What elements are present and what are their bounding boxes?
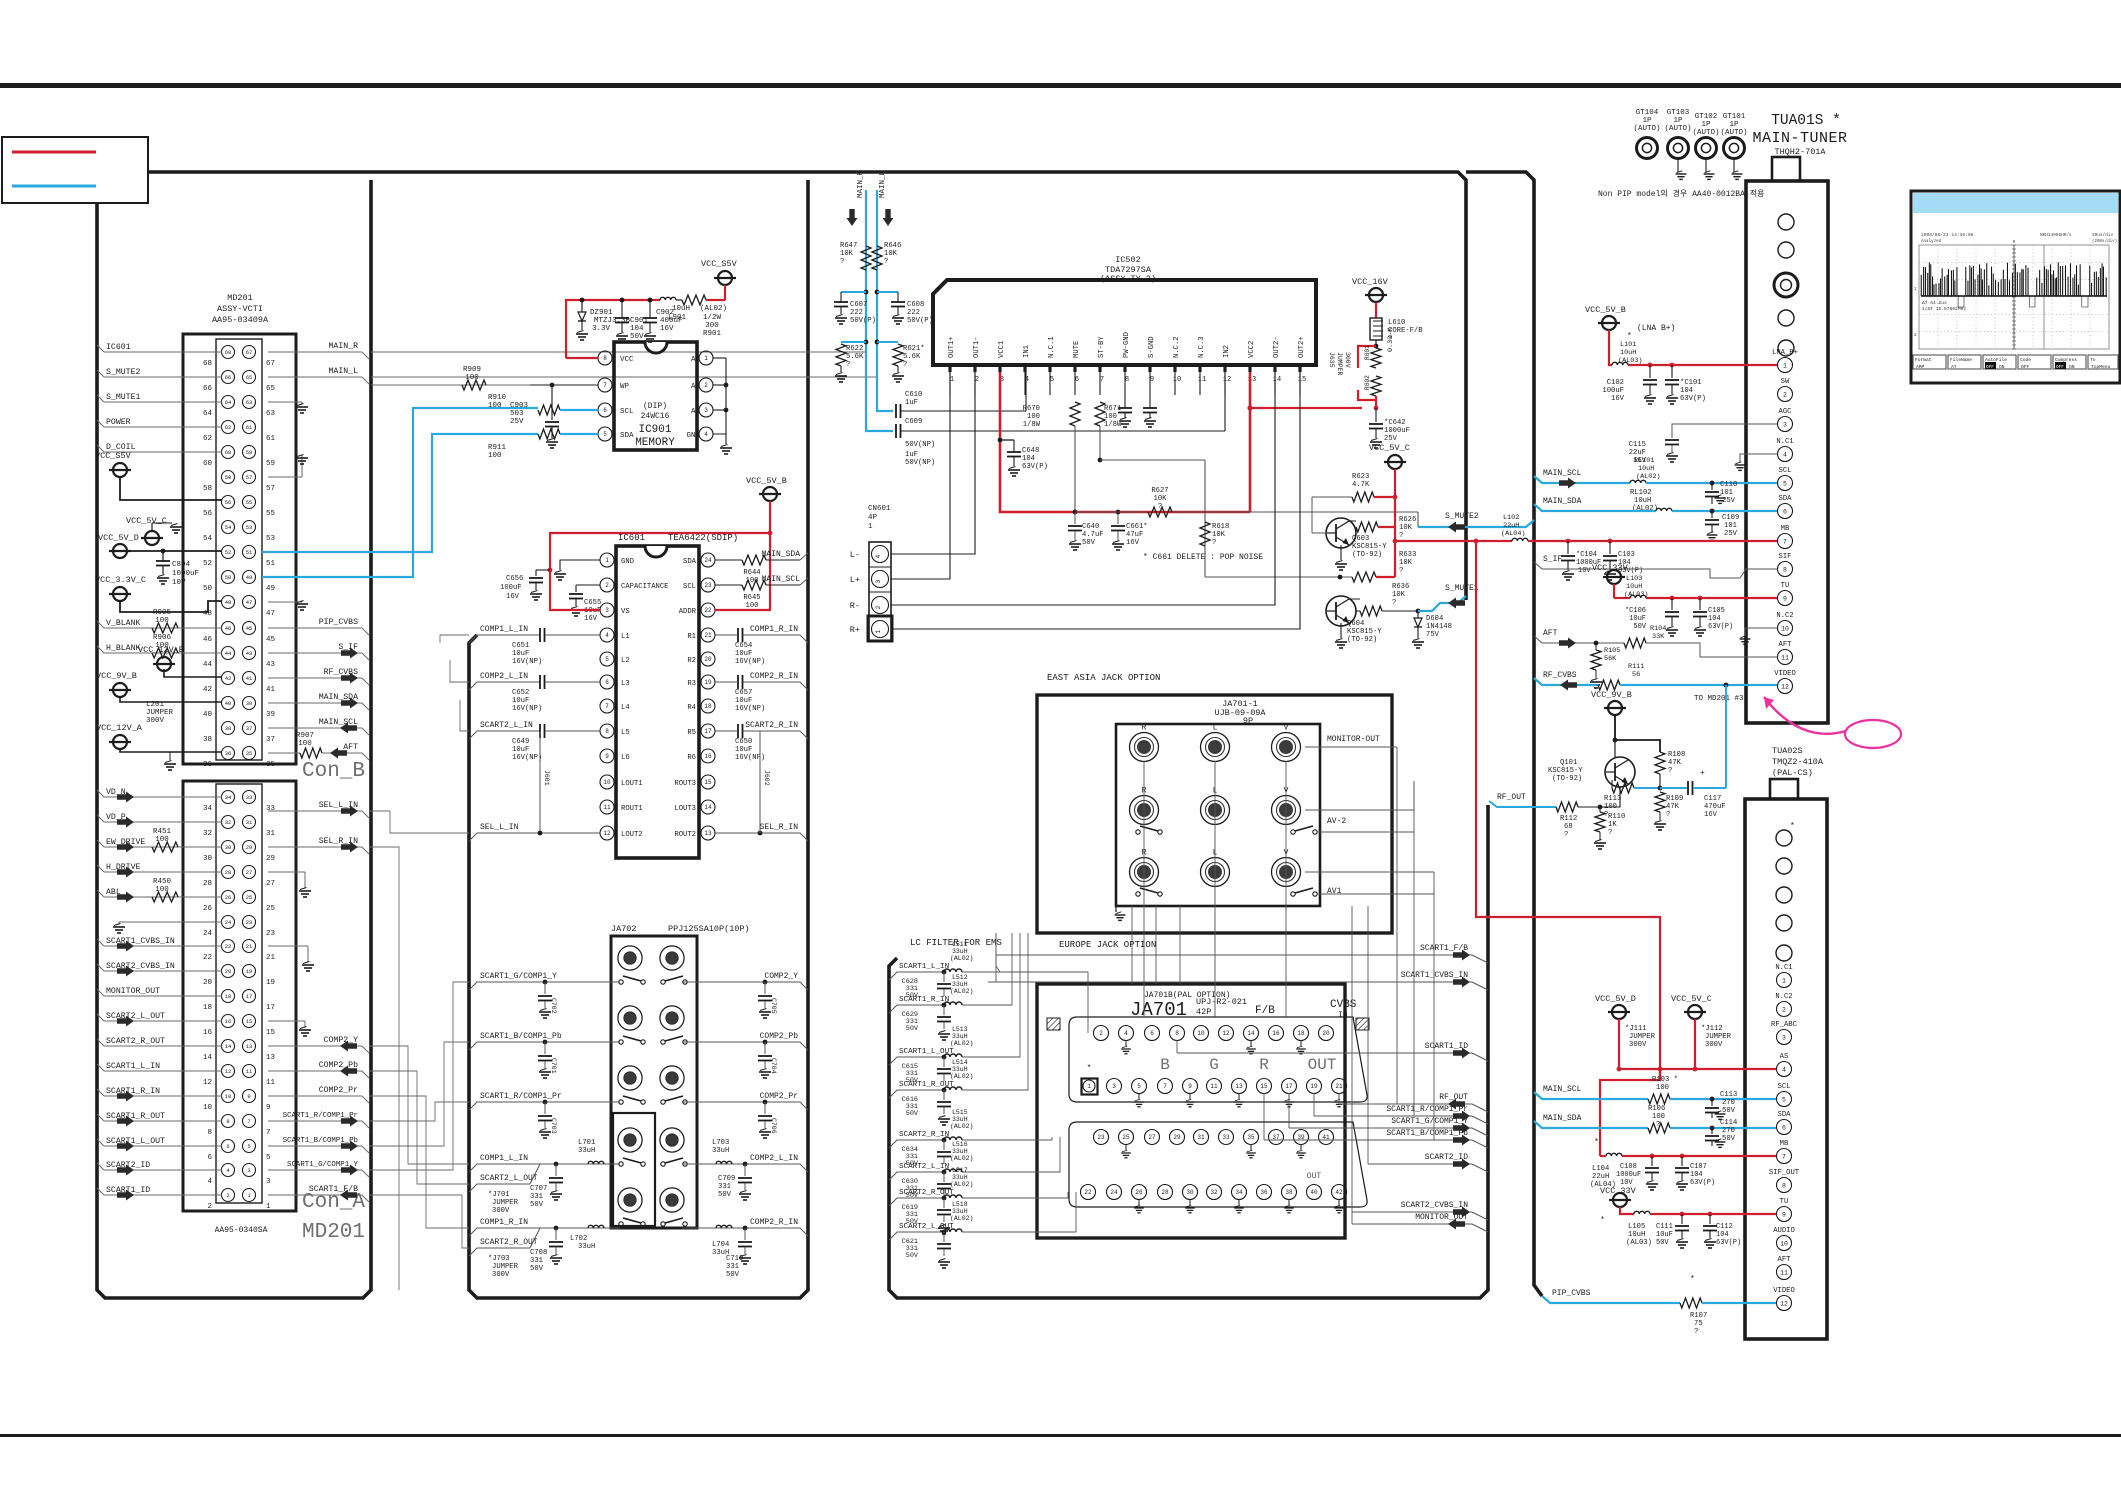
resistor R108 47K — [1655, 752, 1665, 774]
power VCC_5V_D — [1612, 1005, 1626, 1019]
region box3 outline — [889, 805, 1488, 1298]
svg-text:(AL02): (AL02) — [950, 1215, 973, 1222]
IC601 pin 10 LOUT1 — [600, 775, 614, 789]
svg-text:33: 33 — [1222, 1134, 1230, 1141]
resistor R622 5.6K — [864, 340, 869, 345]
svg-text:56K: 56K — [1604, 655, 1617, 663]
svg-text:49: 49 — [246, 574, 253, 581]
svg-text:21: 21 — [704, 632, 712, 639]
power VCC_5V_B — [1602, 316, 1616, 330]
capacitor C615 331 50V — [943, 1057, 945, 1067]
svg-text:25V: 25V — [510, 418, 524, 426]
svg-text:46: 46 — [203, 636, 213, 644]
svg-text:60: 60 — [203, 460, 213, 468]
MD201 pin 27 — [243, 866, 256, 879]
svg-text:2: 2 — [1099, 1030, 1103, 1037]
legend box — [2, 137, 148, 203]
IC502 pin 12 IN2 — [1223, 365, 1226, 372]
wire SCART2_CVBS_IN — [104, 970, 222, 972]
svg-text:1/2W: 1/2W — [703, 314, 722, 322]
JA701 pin 8 — [1170, 1026, 1185, 1041]
svg-text:R5: R5 — [687, 729, 696, 737]
svg-text:VCC_9V_B: VCC_9V_B — [1591, 690, 1632, 700]
svg-text:IC901: IC901 — [638, 424, 671, 436]
svg-text:GT101: GT101 — [1723, 113, 1746, 121]
svg-text:AFT: AFT — [1543, 629, 1558, 638]
svg-text:63: 63 — [266, 410, 276, 418]
svg-text:10: 10 — [603, 779, 611, 786]
svg-text:A2: A2 — [691, 408, 700, 416]
resistor R602 0.33-K — [1371, 376, 1381, 396]
resistor R633 10K — [1352, 572, 1376, 582]
svg-text:14: 14 — [704, 804, 712, 811]
svg-text:R906: R906 — [153, 634, 172, 642]
svg-text:TopMenu: TopMenu — [2091, 364, 2111, 370]
svg-text:43: 43 — [246, 650, 253, 657]
capacitor C655 10uF 16V — [576, 584, 600, 586]
svg-text:12: 12 — [203, 1079, 212, 1087]
svg-text:20: 20 — [225, 968, 232, 975]
svg-text:47K: 47K — [1666, 803, 1680, 811]
svg-text:MAIN_SCL: MAIN_SCL — [1543, 1085, 1582, 1094]
svg-text:22uH: 22uH — [1592, 1173, 1609, 1181]
svg-text:L5: L5 — [621, 729, 630, 737]
wire SCART1_L_OUT — [889, 1057, 944, 1065]
MD201 pin 29 — [243, 841, 256, 854]
svg-text:GT104: GT104 — [1636, 109, 1659, 117]
JA701 pin 21 — [1332, 1079, 1347, 1094]
svg-text:4.7K: 4.7K — [1352, 481, 1370, 489]
top border line of board regions — [148, 172, 1466, 600]
svg-text:54: 54 — [203, 535, 213, 543]
legend cyan wire sample — [12, 185, 96, 188]
svg-text:300V: 300V — [492, 1271, 510, 1279]
svg-text:6: 6 — [603, 407, 607, 414]
inductor L514 33uH — [944, 1087, 962, 1090]
wire SEL_R_IN — [268, 846, 362, 848]
svg-text:(AUTO): (AUTO) — [1633, 125, 1660, 133]
gray mute net — [1075, 511, 1148, 513]
svg-text:35: 35 — [266, 761, 276, 769]
IC502 pin 2 OUT1- — [973, 365, 976, 372]
svg-text:(AL02): (AL02) — [950, 1073, 973, 1080]
svg-text:CAPACITANCE: CAPACITANCE — [621, 583, 668, 591]
svg-text:SCL: SCL — [1779, 467, 1792, 475]
svg-text:25V: 25V — [1722, 497, 1736, 505]
svg-text:POWER: POWER — [106, 418, 131, 427]
svg-text:VCC_12V_A: VCC_12V_A — [96, 723, 143, 733]
svg-text:30: 30 — [225, 844, 232, 851]
svg-text:15: 15 — [704, 779, 712, 786]
capacitor C704 330 50V — [764, 1042, 766, 1054]
svg-text:4: 4 — [875, 554, 882, 558]
wire COMP2_Pr — [268, 1095, 362, 1097]
capacitor C901 104 50V — [620, 298, 625, 303]
svg-text:(AL02): (AL02) — [950, 955, 973, 962]
svg-text:SEL_L_IN: SEL_L_IN — [480, 823, 519, 832]
wire AV-2 out — [1317, 831, 1414, 833]
magenta ellipse — [1845, 720, 1901, 748]
svg-text:(AL02): (AL02) — [1636, 473, 1660, 481]
IC601 pin 11 ROUT1 — [600, 800, 614, 814]
svg-text:50V(P): 50V(P) — [850, 317, 876, 325]
JA701 upper pin row box — [1069, 1017, 1367, 1102]
capacitor C651 — [539, 628, 541, 642]
svg-text:32: 32 — [1210, 1189, 1218, 1196]
svg-text:C102: C102 — [1607, 379, 1624, 387]
svg-text:VCC1: VCC1 — [998, 341, 1006, 358]
svg-text:25: 25 — [246, 894, 253, 901]
svg-text:11: 11 — [266, 1079, 276, 1087]
JA701 pin 12 — [1219, 1026, 1234, 1041]
channel verticals to IC601 inputs — [440, 635, 469, 643]
svg-text:C903: C903 — [510, 402, 529, 410]
svg-text:36: 36 — [1260, 1189, 1268, 1196]
wire MAIN_R — [371, 351, 866, 353]
svg-text:101: 101 — [1724, 522, 1737, 530]
MD201 pin 7 — [243, 1115, 256, 1128]
inductor L512 33uH — [944, 1002, 962, 1005]
svg-text:TO MD201 #3: TO MD201 #3 — [1694, 695, 1744, 703]
svg-text:9: 9 — [2013, 239, 2016, 245]
svg-text:L101: L101 — [1620, 341, 1636, 349]
svg-text:VCC_5V_B: VCC_5V_B — [1585, 305, 1626, 315]
svg-text:4: 4 — [1783, 451, 1787, 458]
capacitor C903 503 25V — [551, 385, 553, 420]
IC601 pin 24 SDA — [701, 553, 715, 567]
switch row2 — [1136, 830, 1140, 834]
svg-text:50V: 50V — [1722, 1135, 1736, 1143]
wire SCART1_CVBS_IN — [988, 981, 1472, 983]
power VCC_33V — [1607, 570, 1621, 584]
svg-text:100: 100 — [746, 602, 759, 610]
svg-text:30: 30 — [1186, 1189, 1194, 1196]
MD201 pin 48 — [222, 596, 235, 609]
svg-text:L511: L511 — [952, 941, 968, 948]
wire SCART1_G/COMP1_Y — [469, 982, 620, 990]
svg-text:55: 55 — [246, 499, 253, 506]
inductor L513 33uH — [944, 1054, 962, 1057]
svg-text:5: 5 — [1783, 480, 1787, 487]
svg-text:AT: AT — [1951, 364, 1957, 370]
svg-text:16V(NP): 16V(NP) — [512, 658, 542, 666]
switch row3 — [1136, 892, 1140, 896]
svg-text:VCC_S5V: VCC_S5V — [95, 451, 132, 461]
svg-text:Q604: Q604 — [1347, 620, 1364, 628]
svg-text:(AL03): (AL03) — [1626, 1239, 1652, 1247]
svg-text:47: 47 — [266, 610, 275, 618]
svg-text:10: 10 — [1781, 625, 1789, 632]
wire MAIN_SDA — [268, 702, 362, 704]
power VCC_5V_C — [1388, 455, 1402, 469]
svg-text:AFT: AFT — [1778, 1256, 1792, 1264]
svg-text:29: 29 — [266, 855, 275, 863]
wire cyan MAIN_R bus — [866, 190, 893, 431]
svg-text:42: 42 — [1335, 1189, 1343, 1196]
svg-text:23: 23 — [246, 919, 253, 926]
wire COMP2_R_IN + L704 — [682, 1228, 808, 1236]
svg-text:TUA01S *: TUA01S * — [1771, 113, 1841, 129]
svg-text:45: 45 — [246, 625, 253, 632]
svg-text:L516: L516 — [952, 1141, 968, 1148]
JA701 pin 7 — [1158, 1079, 1173, 1094]
svg-text:26: 26 — [1135, 1189, 1143, 1196]
resistor R670 100 1/8W — [1070, 402, 1080, 426]
svg-text:22: 22 — [704, 607, 712, 614]
JA701 pin 29 — [1170, 1130, 1185, 1145]
capacitor C621 331 50V — [943, 1232, 945, 1242]
svg-text:57: 57 — [246, 474, 253, 481]
capacitor C102 100uF 16V — [1649, 365, 1651, 378]
svg-text:4: 4 — [207, 1178, 212, 1186]
svg-text:33K: 33K — [1652, 633, 1665, 641]
svg-text:331: 331 — [726, 1263, 739, 1271]
svg-text:21: 21 — [246, 943, 253, 950]
svg-text:14: 14 — [1247, 1030, 1255, 1037]
svg-text:1/ΔT 15.57602MHz: 1/ΔT 15.57602MHz — [1922, 306, 1966, 312]
svg-text:6: 6 — [1783, 508, 1787, 515]
svg-text:R108: R108 — [1668, 751, 1685, 759]
svg-text:34: 34 — [1235, 1189, 1243, 1196]
svg-text:9: 9 — [1188, 1083, 1192, 1090]
MD201 pin 55 — [243, 496, 256, 509]
svg-text:20: 20 — [203, 979, 213, 987]
svg-text:16: 16 — [203, 1029, 213, 1037]
svg-text:To: To — [2090, 357, 2096, 363]
wire SCART1_B/COMP1_Pb — [268, 1145, 362, 1147]
svg-text:57: 57 — [266, 485, 275, 493]
svg-text:100: 100 — [298, 740, 312, 748]
svg-text:C113: C113 — [1720, 1091, 1737, 1099]
jack JA701-1 V row3 — [1272, 858, 1301, 887]
svg-text:IN2: IN2 — [1223, 345, 1231, 358]
svg-text:R671: R671 — [1104, 405, 1121, 413]
svg-text:?: ? — [1399, 567, 1403, 575]
svg-text:50V(NP): 50V(NP) — [905, 441, 935, 449]
svg-text:SCART2_L_IN: SCART2_L_IN — [480, 721, 533, 730]
svg-text:16V(NP): 16V(NP) — [735, 754, 765, 762]
svg-text:50V: 50V — [530, 1265, 544, 1273]
svg-text:MAIN-TUNER: MAIN-TUNER — [1752, 130, 1847, 147]
svg-text:N.C1: N.C1 — [1775, 964, 1792, 972]
svg-text:?: ? — [903, 361, 907, 369]
wire ABL — [104, 896, 222, 898]
IC601 pin 3 VS — [600, 603, 614, 617]
svg-text:63V(P): 63V(P) — [1022, 463, 1048, 471]
IC901 pin 5 SDA — [598, 427, 612, 441]
svg-text:31: 31 — [266, 830, 276, 838]
svg-text:C656: C656 — [506, 575, 523, 583]
svg-text:9: 9 — [247, 1093, 250, 1100]
svg-text:TUA02S: TUA02S — [1772, 746, 1803, 756]
svg-text:Non PIP model의 경우 AA40-0012BA: Non PIP model의 경우 AA40-0012BA 적용 — [1598, 188, 1764, 199]
svg-text:L518: L518 — [952, 1201, 968, 1208]
svg-text:12: 12 — [1222, 1030, 1230, 1037]
svg-text:10uF: 10uF — [512, 746, 529, 754]
svg-text:C649: C649 — [512, 738, 529, 746]
svg-text:10uF: 10uF — [735, 650, 752, 658]
svg-text:7: 7 — [1782, 1153, 1786, 1160]
scope menu buttons — [1913, 355, 1946, 369]
svg-text:39: 39 — [246, 700, 253, 707]
wire SEL_L_IN — [268, 810, 362, 812]
capacitor C109 101 25V — [1711, 511, 1713, 518]
svg-text:*: * — [1087, 1064, 1092, 1073]
resistor R105 56K — [1595, 643, 1597, 650]
svg-text:R105: R105 — [1604, 647, 1620, 655]
transistor Q603 KSC815-Y — [1326, 518, 1356, 548]
wire POWER — [104, 426, 222, 428]
svg-text:63V(P): 63V(P) — [1680, 395, 1706, 403]
svg-text:AS: AS — [1780, 1053, 1789, 1061]
svg-text:LOUT1: LOUT1 — [621, 780, 643, 788]
svg-text:C702: C702 — [550, 998, 557, 1014]
svg-text:222: 222 — [907, 309, 920, 317]
svg-text:R621*: R621* — [903, 345, 925, 353]
IC901 pin 7 WP — [598, 378, 612, 392]
svg-text:G: G — [1209, 1056, 1219, 1074]
capacitor C707 331 50V — [554, 1162, 559, 1167]
svg-text:67: 67 — [246, 349, 253, 356]
svg-text:4: 4 — [1782, 1066, 1786, 1073]
IC502 pin 8 PW-GND — [1123, 365, 1126, 372]
svg-text:VCC_3.3V_C: VCC_3.3V_C — [95, 575, 146, 585]
svg-text:300V: 300V — [1629, 1041, 1647, 1049]
svg-text:10uF: 10uF — [1656, 1231, 1673, 1239]
wire MAIN_R — [268, 351, 362, 353]
svg-text:R111: R111 — [1628, 663, 1644, 671]
svg-text:4: 4 — [1124, 1030, 1128, 1037]
svg-text:JUMPER: JUMPER — [492, 1199, 519, 1207]
jack JA701-1 L row3 — [1201, 858, 1230, 887]
svg-text:CN601: CN601 — [868, 505, 891, 513]
svg-text:COMP1_L_IN: COMP1_L_IN — [480, 625, 528, 634]
svg-text:0.33-K: 0.33-K — [1387, 327, 1395, 352]
svg-text:LOUT3: LOUT3 — [674, 805, 696, 813]
svg-text:16V(NP): 16V(NP) — [512, 754, 542, 762]
svg-text:SCART1_R_IN: SCART1_R_IN — [106, 1087, 160, 1096]
red channel vertical — [1476, 541, 1660, 1150]
IC601 pin 1 GND — [600, 553, 614, 567]
svg-text:(AL02): (AL02) — [950, 988, 973, 995]
MD201 pin 64 — [222, 396, 235, 409]
capacitor C117 470uF 16V — [1687, 781, 1689, 795]
JA701 pin 28 — [1158, 1185, 1173, 1200]
ground stubs right Con_A — [268, 871, 305, 873]
top border segment right / channel cap — [1466, 172, 1542, 1296]
svg-text:1uF: 1uF — [905, 451, 918, 459]
svg-text:*J112: *J112 — [1701, 1025, 1723, 1033]
svg-text:6: 6 — [1782, 1124, 1786, 1131]
svg-text:MAIN_SCL: MAIN_SCL — [1543, 469, 1582, 478]
capacitor C107 104 63V(P) — [1681, 1156, 1683, 1166]
svg-text:RF_OUT: RF_OUT — [1497, 793, 1526, 802]
svg-text:10K: 10K — [1154, 495, 1168, 503]
svg-text:3: 3 — [704, 407, 708, 414]
svg-text:1: 1 — [1087, 1083, 1091, 1090]
svg-text:25V: 25V — [1384, 435, 1398, 443]
svg-text:33: 33 — [266, 805, 276, 813]
svg-text:37: 37 — [246, 725, 253, 732]
svg-text:?: ? — [1608, 829, 1612, 837]
MD201 pin 62 — [222, 421, 235, 434]
svg-text:OUT2+: OUT2+ — [1298, 336, 1306, 358]
svg-text:22: 22 — [1084, 1189, 1092, 1196]
svg-text:*: * — [1790, 822, 1795, 831]
scope blue header band — [1913, 193, 2118, 213]
svg-text:46: 46 — [225, 625, 232, 632]
svg-text:V: V — [1284, 724, 1289, 733]
capacitor C106 10uF 50V — [1671, 598, 1673, 610]
svg-text:8: 8 — [1782, 1182, 1786, 1189]
svg-text:R622: R622 — [846, 345, 863, 353]
svg-text:ROUT2: ROUT2 — [674, 831, 696, 839]
MD201 pin 50 — [222, 571, 235, 584]
MD201 pin 24 — [222, 916, 235, 929]
svg-text:10V: 10V — [172, 579, 186, 587]
capacitor C616 331 50V — [943, 1090, 945, 1100]
svg-text:16V: 16V — [506, 593, 520, 601]
svg-text:13: 13 — [1235, 1083, 1243, 1090]
wire COMP2_L_IN + L703 — [682, 1164, 808, 1172]
svg-text:36: 36 — [225, 750, 232, 757]
wire V_BLANK — [104, 627, 222, 629]
jack JA702 row3 left — [618, 1066, 642, 1090]
svg-text:4: 4 — [704, 431, 708, 438]
svg-text:2: 2 — [1782, 1006, 1786, 1013]
svg-text:C110: C110 — [1720, 481, 1737, 489]
svg-text:N.C.3: N.C.3 — [1198, 336, 1206, 358]
IC601 pin 7 L4 — [600, 699, 614, 713]
svg-text:31: 31 — [246, 819, 253, 826]
wire SCART1_R_IN — [104, 1095, 222, 1097]
MD201 pin 65 — [243, 371, 256, 384]
svg-text:MAIN_SDA: MAIN_SDA — [1543, 497, 1582, 506]
svg-text:53: 53 — [266, 535, 276, 543]
svg-text:11: 11 — [1780, 1269, 1788, 1276]
svg-text:N.C1: N.C1 — [1776, 438, 1793, 446]
svg-text:24WC16: 24WC16 — [641, 412, 670, 421]
IC601 pin 14 LOUT3 — [701, 800, 715, 814]
svg-text:51: 51 — [246, 549, 253, 556]
svg-text:59: 59 — [266, 460, 275, 468]
svg-text:(AL02): (AL02) — [950, 1040, 973, 1047]
svg-text:C111: C111 — [1656, 1223, 1673, 1231]
svg-text:20: 20 — [704, 656, 712, 663]
svg-text:7: 7 — [247, 1118, 250, 1125]
svg-text:KSC815-Y: KSC815-Y — [1352, 543, 1387, 551]
svg-text:Code: Code — [2020, 357, 2031, 363]
svg-text:C701: C701 — [550, 1058, 557, 1074]
svg-text:3: 3 — [1112, 1083, 1116, 1090]
svg-text:R112: R112 — [1560, 815, 1577, 823]
svg-text:SCART1_R/COMP1_Pr: SCART1_R/COMP1_Pr — [480, 1092, 562, 1101]
svg-text:16V: 16V — [1611, 395, 1625, 403]
jack JA702 row5 left — [618, 1188, 642, 1212]
svg-text:SEL_R_IN: SEL_R_IN — [760, 823, 799, 832]
jack JA702 row4 left — [618, 1128, 642, 1152]
svg-text:SCART1_F/B: SCART1_F/B — [1420, 944, 1468, 953]
svg-text:?: ? — [1666, 811, 1670, 819]
svg-text:42: 42 — [225, 675, 232, 682]
svg-text:*C104: *C104 — [1576, 551, 1597, 559]
MD201 pin 51 — [243, 546, 256, 559]
jack JA701-1 R row1 — [1130, 733, 1159, 762]
svg-text:1000uF: 1000uF — [1384, 427, 1410, 435]
JA701 pin feed wires — [1176, 1040, 1178, 1053]
wire MAIN_SCL cyan from pin51 — [262, 434, 538, 552]
svg-text:L703: L703 — [712, 1139, 729, 1147]
